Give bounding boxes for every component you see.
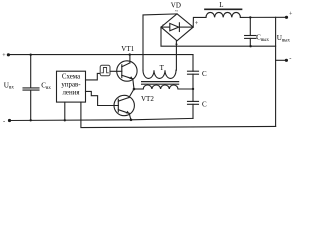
svg-text:Uвых: Uвых [277, 34, 291, 43]
wire secondary right lead up to bridge bottom [175, 41, 177, 70]
wire primary right stub to divider midpoint [178, 88, 193, 90]
svg-text:~: ~ [175, 42, 179, 48]
wire output right vertical [275, 17, 277, 126]
svg-text:-: - [162, 22, 164, 28]
control unit box (Схема управления) [57, 71, 86, 102]
svg-text:+: + [289, 11, 293, 17]
node output plus terminal [285, 11, 293, 19]
svg-text:Uвх: Uвх [4, 81, 15, 90]
wire control output 2 to VT2 base [86, 91, 119, 105]
svg-text:VD: VD [171, 1, 181, 9]
node input minus terminal [3, 118, 11, 125]
label Uin [4, 81, 15, 90]
label control unit text [61, 73, 81, 96]
wire control box ground lead [64, 102, 66, 120]
wire bridge plus output up to choke [193, 17, 206, 27]
pulse symbol [102, 68, 109, 73]
label Uout [277, 34, 291, 43]
svg-text:C: C [202, 70, 207, 78]
svg-text:+: + [195, 20, 199, 27]
inductor L choke winding [206, 12, 240, 17]
svg-text:C: C [202, 100, 207, 108]
svg-text:Cвх: Cвх [41, 82, 51, 91]
wire choke to output plus terminal [240, 16, 286, 18]
node junction VT1 collector on rail [129, 53, 131, 55]
node junction Cout bottom [249, 45, 251, 47]
wire control output 1 to pulse shaper [86, 73, 101, 80]
wire midpoint to primary winding [134, 88, 143, 90]
wire feedback line from control box to output [81, 102, 276, 128]
capacitor C divider bottom [188, 89, 199, 118]
wire VT2 collector lead to midpoint [129, 89, 134, 98]
wire top input rail [8, 54, 193, 56]
label Cout [256, 34, 269, 43]
svg-text:управ-: управ- [61, 81, 81, 88]
node junction VT2 emitter on bottom rail [130, 119, 133, 122]
svg-text:T: T [160, 64, 165, 72]
svg-text:-: - [289, 55, 291, 62]
svg-text:+: + [2, 53, 6, 59]
node junction control ground [64, 119, 66, 121]
capacitor C divider top [188, 55, 199, 89]
inductor L core bar [205, 8, 242, 10]
svg-text:Схема: Схема [62, 73, 80, 80]
transformer T core [142, 82, 179, 85]
diode bridge VD diamond [161, 14, 193, 41]
wire bottom input rail [10, 118, 194, 120]
node output minus terminal [285, 55, 292, 62]
node input plus terminal [2, 53, 10, 59]
transformer T secondary winding [143, 70, 176, 78]
node midpoint junction [133, 88, 136, 91]
svg-text:ления: ления [62, 89, 80, 96]
label Cin [41, 82, 51, 91]
transistor Q VT1 [117, 61, 137, 81]
svg-text:VT1: VT1 [121, 45, 134, 53]
wire VT1 collector lead [129, 55, 131, 63]
capacitor Cout [245, 17, 256, 46]
node junction Cout top [249, 16, 251, 18]
wire VT1 emitter lead to midpoint [133, 79, 134, 89]
svg-text:L: L [219, 1, 223, 9]
node junction Cin bottom [30, 119, 32, 121]
node junction Cin top [30, 54, 32, 56]
node junction divider midpoint [192, 88, 194, 90]
wire pulse box to VT1 base [110, 70, 122, 72]
capacitor Cin [23, 55, 39, 121]
svg-text:-: - [3, 118, 5, 125]
svg-text:Cвых: Cвых [256, 34, 269, 43]
transistor Q VT2 [114, 95, 134, 115]
transformer T primary winding [143, 85, 178, 89]
svg-text:VT2: VT2 [141, 95, 154, 103]
wire output minus stub [276, 59, 287, 61]
wire secondary left lead up and over to bridge top [143, 14, 177, 70]
wire bridge minus output down and right [161, 27, 276, 46]
wire VT2 emitter lead [129, 113, 131, 119]
pulse shaper box [100, 65, 110, 76]
